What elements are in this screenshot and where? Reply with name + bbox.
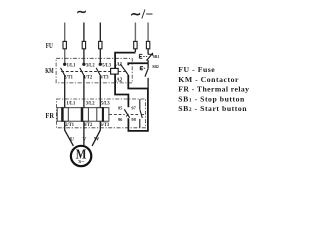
wire A1 to left control line: [115, 53, 135, 69]
contactor KM auxiliary contact (NO): [120, 64, 128, 75]
contactor KM dashed enclosure: [56, 58, 132, 83]
thermal relay FR dashed enclosure: [56, 99, 145, 128]
button SB1 stop (NC): [139, 53, 153, 63]
wire aux contact bottom loop: [128, 75, 148, 89]
svg-text:3~: 3~: [78, 159, 85, 164]
svg-text:KM - Contactor: KM - Contactor: [178, 75, 239, 84]
svg-text:1/L1: 1/L1: [67, 101, 76, 107]
thermal relay FR heater element 1: [62, 108, 69, 122]
thermal relay FR heater outer frame: [57, 108, 109, 122]
svg-text:97: 97: [131, 105, 136, 110]
svg-text:KM: KM: [45, 67, 54, 75]
svg-text:FR: FR: [45, 112, 54, 120]
svg-text:1/L1: 1/L1: [67, 62, 76, 68]
svg-text:V: V: [82, 137, 86, 143]
svg-text:5/L3: 5/L3: [101, 101, 110, 107]
thermal relay FR contact 97-98 (NO): [140, 99, 143, 127]
svg-text:SB1 - Stop button: SB1 - Stop button: [178, 94, 245, 103]
svg-text:SB1: SB1: [153, 54, 160, 59]
wire motor lead U: [65, 121, 74, 146]
wire A2 to FR contact 95: [115, 74, 128, 107]
svg-text:∼: ∼: [76, 4, 87, 19]
svg-text:2/T1: 2/T1: [65, 122, 74, 128]
fuse FU control right: [146, 41, 149, 48]
fuse FU phase 3: [99, 41, 102, 48]
svg-text:4/T2: 4/T2: [84, 122, 93, 128]
button SB2 start (NO): [140, 63, 148, 88]
svg-text:4/T2: 4/T2: [83, 75, 92, 81]
svg-text:5/L3: 5/L3: [102, 62, 111, 68]
svg-text:96: 96: [118, 117, 123, 122]
contactor KM main contact pole 3: [96, 63, 102, 108]
wire FR 96 to SB2 loop: [128, 89, 148, 131]
svg-text:A2: A2: [116, 77, 122, 83]
svg-text:SB2: SB2: [152, 64, 159, 69]
wire motor lead W: [92, 121, 100, 146]
linkage dashed line (FR trip): [109, 114, 125, 116]
svg-text:SB2 - Start button: SB2 - Start button: [178, 104, 247, 113]
wire phase L1 top: [64, 23, 66, 63]
wire motor lead V: [83, 121, 85, 146]
wire branch junction to aux contact (top): [128, 63, 148, 65]
fuse FU phase 2: [82, 41, 85, 48]
wire phase L3 top: [99, 23, 101, 63]
svg-text:98: 98: [131, 117, 136, 122]
fuse FU phase 1: [63, 41, 66, 48]
contactor KM main contact pole 1: [61, 63, 67, 108]
thermal relay FR heater element 2: [81, 108, 88, 122]
linkage dashed line (coil to aux contact): [118, 70, 126, 72]
svg-text:FU - Fuse: FU - Fuse: [178, 65, 215, 74]
contactor KM main contact pole 2: [80, 63, 86, 108]
svg-text:95: 95: [118, 105, 123, 110]
svg-text:6/T3: 6/T3: [100, 122, 109, 128]
motor M circle: [71, 146, 91, 166]
linkage dashed line (KM poles to coil): [61, 71, 110, 73]
svg-text:FU: FU: [46, 41, 53, 50]
thermal relay FR heater element 3: [97, 108, 104, 122]
fuse FU control left: [134, 41, 137, 48]
coil KM (A1-A2): [111, 68, 119, 74]
svg-text:U: U: [70, 137, 74, 143]
wire control right top: [147, 23, 149, 42]
svg-text:∼/−: ∼/−: [130, 6, 153, 21]
svg-text:3/L2: 3/L2: [86, 62, 95, 68]
svg-text:3/L2: 3/L2: [86, 101, 95, 107]
svg-text:FR - Thermal relay: FR - Thermal relay: [178, 85, 249, 94]
wire control left top: [134, 23, 136, 42]
wire phase L2 top: [83, 23, 85, 63]
thermal relay FR contact 95-96 (NC): [124, 109, 129, 117]
svg-text:2/T1: 2/T1: [64, 75, 73, 81]
svg-text:6/T3: 6/T3: [100, 75, 109, 81]
svg-text:W: W: [94, 137, 100, 143]
